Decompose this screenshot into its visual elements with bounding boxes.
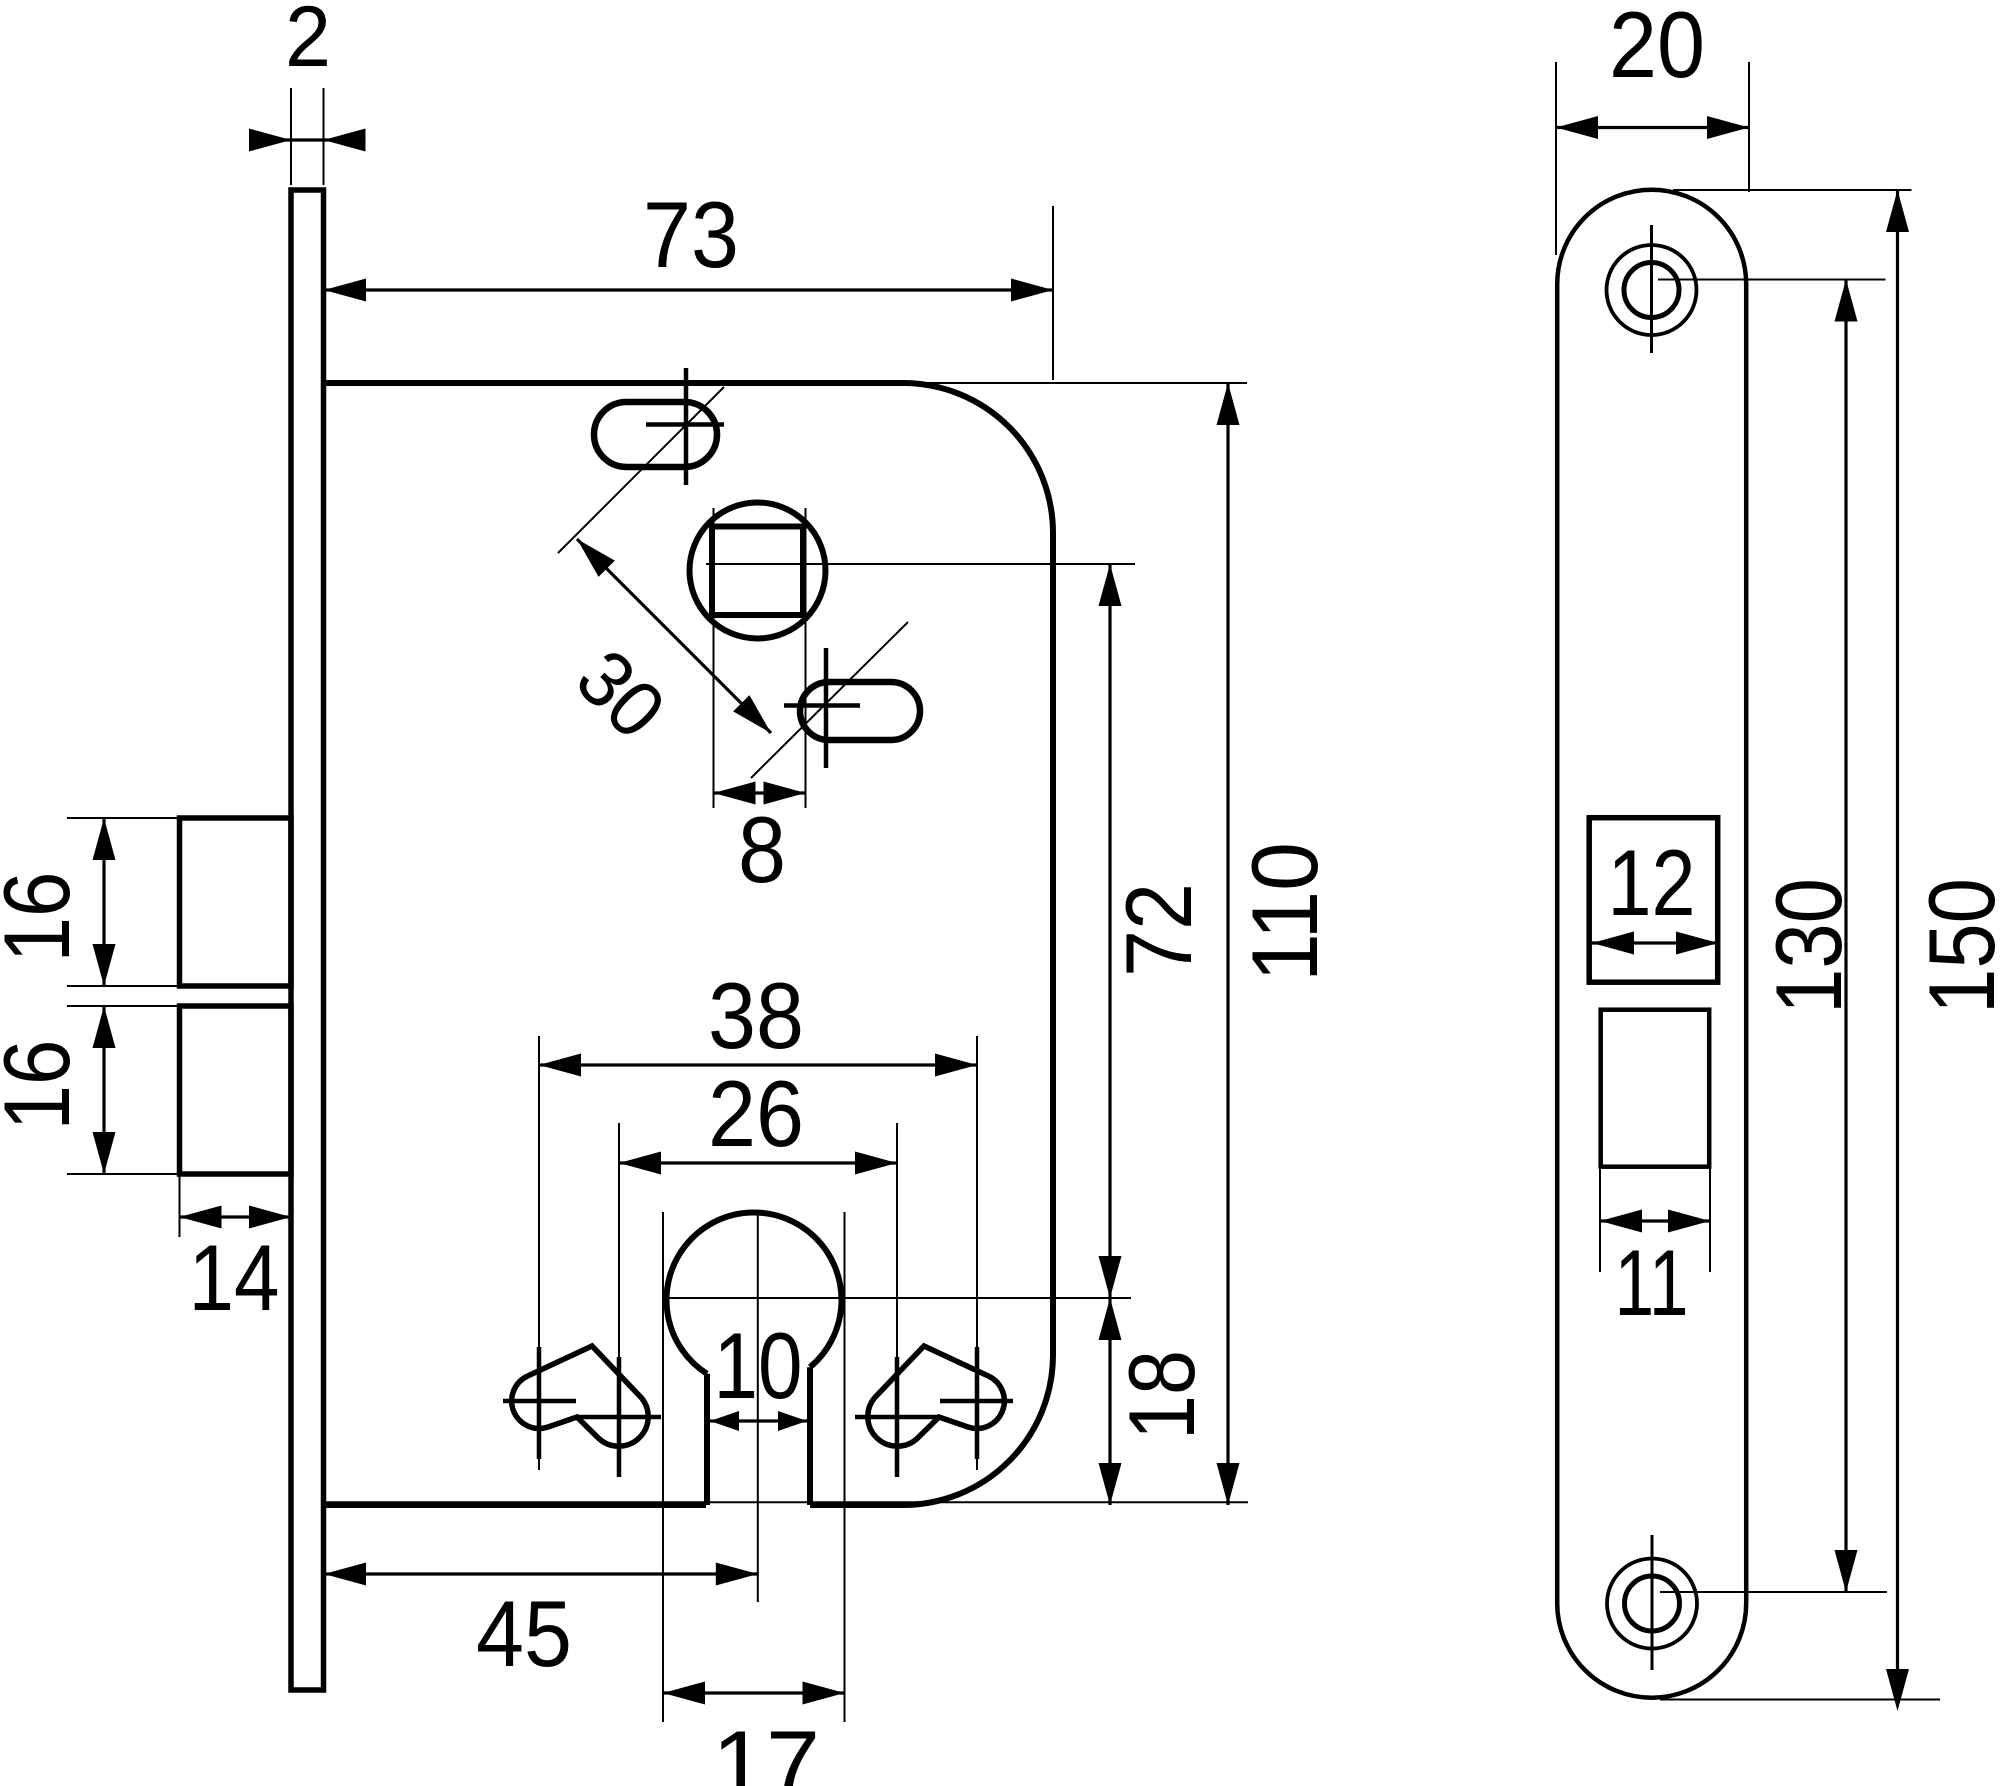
dimension 72 line xyxy=(1108,564,1111,1298)
extension lines for 8 xyxy=(713,508,715,808)
svg-text:16: 16 xyxy=(0,872,89,963)
diagonal extension line 2 xyxy=(751,622,908,778)
extension line latch top xyxy=(67,817,180,819)
dimension 18 line xyxy=(1108,1298,1111,1505)
extension line latch bottom xyxy=(67,1173,180,1175)
dimension 8 line xyxy=(714,791,806,794)
dimension 11 line xyxy=(1600,1219,1710,1222)
extension line plate top xyxy=(1673,189,1912,191)
extension line plate bottom xyxy=(1660,1699,1940,1701)
dimension 12 line xyxy=(1592,941,1718,944)
screw hole top centermark xyxy=(1650,225,1653,353)
oval slot 2 xyxy=(800,682,920,740)
extension line body top right xyxy=(916,382,1247,384)
keyhole circle xyxy=(666,1212,841,1373)
svg-text:17: 17 xyxy=(712,1711,820,1786)
dimension 10 line xyxy=(710,1419,807,1422)
svg-text:110: 110 xyxy=(1232,842,1337,982)
dimension 20 line xyxy=(1556,126,1749,129)
svg-text:130: 130 xyxy=(1756,878,1861,1014)
dimension 16 lower line xyxy=(102,1006,105,1174)
dimension 73 line xyxy=(324,288,1053,291)
keyhole vertical centerline xyxy=(757,1211,759,1602)
dimension 17 line xyxy=(663,1691,845,1694)
dimension 16 upper line xyxy=(102,818,105,986)
lever cutout right xyxy=(868,1346,1005,1446)
extension lines for 26 xyxy=(618,1123,620,1470)
extension line body right up xyxy=(1052,206,1054,380)
keyhole slot right line xyxy=(807,1367,813,1505)
svg-text:20: 20 xyxy=(1609,0,1705,97)
dimension 14 line xyxy=(180,1215,292,1218)
extension line screw bottom xyxy=(1660,1591,1887,1593)
screw hole bottom outer xyxy=(1607,1559,1697,1649)
svg-text:38: 38 xyxy=(708,963,804,1068)
latch bolt lower xyxy=(180,1006,292,1174)
dimension 45 line xyxy=(324,1572,758,1575)
lever cutout left crosses xyxy=(503,1399,576,1404)
spindle circle xyxy=(690,503,826,639)
faceplate front view xyxy=(1557,190,1746,1698)
latch bolt upper xyxy=(180,818,292,986)
extension lines for 2 xyxy=(290,88,292,185)
extension line latch left down xyxy=(179,1174,181,1237)
extension lines for 17 xyxy=(662,1212,664,1722)
extension line screw top xyxy=(1658,279,1886,281)
latch hole front xyxy=(1601,1010,1710,1167)
svg-text:26: 26 xyxy=(708,1061,804,1166)
oval slot 1 cross xyxy=(684,368,689,485)
lock body outline xyxy=(324,383,1053,1505)
extension lines for 38 xyxy=(538,1036,540,1470)
dimension 110 line xyxy=(1226,383,1229,1505)
oval slot 1 xyxy=(594,402,717,467)
svg-text:150: 150 xyxy=(1909,878,2000,1014)
keyhole slot left line xyxy=(704,1374,710,1505)
keyhole horizontal centerline xyxy=(663,1297,1131,1299)
svg-text:72: 72 xyxy=(1106,883,1211,977)
screw hole bottom centermark xyxy=(1651,1535,1654,1670)
extension line body bottom xyxy=(324,1501,1248,1503)
svg-text:30: 30 xyxy=(560,633,682,755)
spindle centerline xyxy=(706,563,1135,565)
spindle square hole xyxy=(712,527,803,616)
screw hole top outer xyxy=(1607,245,1697,335)
extension line latch mid lower xyxy=(67,1005,180,1007)
dimension 30 line xyxy=(577,539,771,733)
dimension 150 line xyxy=(1896,190,1899,1700)
svg-text:11: 11 xyxy=(1615,1230,1689,1335)
lever cutout left xyxy=(512,1346,649,1446)
svg-text:14: 14 xyxy=(189,1225,280,1330)
oval slot 2 cross xyxy=(824,648,829,768)
svg-text:8: 8 xyxy=(738,797,786,902)
extension lines for 20 xyxy=(1555,62,1557,255)
dimension 26 line xyxy=(619,1161,897,1164)
svg-text:10: 10 xyxy=(714,1313,803,1418)
svg-text:18: 18 xyxy=(1109,1350,1214,1440)
extension lines for 11 xyxy=(1599,1169,1601,1272)
svg-text:73: 73 xyxy=(643,182,739,287)
extension line latch mid upper xyxy=(67,985,180,987)
svg-text:45: 45 xyxy=(476,1581,572,1686)
lever cutout right crosses xyxy=(940,1399,1013,1404)
dimension 130 line xyxy=(1844,280,1847,1593)
screw hole top inner xyxy=(1624,263,1679,318)
dimension 2 line xyxy=(252,138,361,141)
screw hole bottom inner xyxy=(1625,1576,1680,1631)
svg-text:2: 2 xyxy=(285,0,331,85)
svg-text:12: 12 xyxy=(1608,830,1696,935)
faceplate side view xyxy=(291,190,324,1690)
diagonal extension line 1 xyxy=(558,387,724,553)
spindle square hole front xyxy=(1589,818,1718,983)
dimension 38 line xyxy=(539,1063,977,1066)
svg-text:16: 16 xyxy=(0,1040,89,1131)
